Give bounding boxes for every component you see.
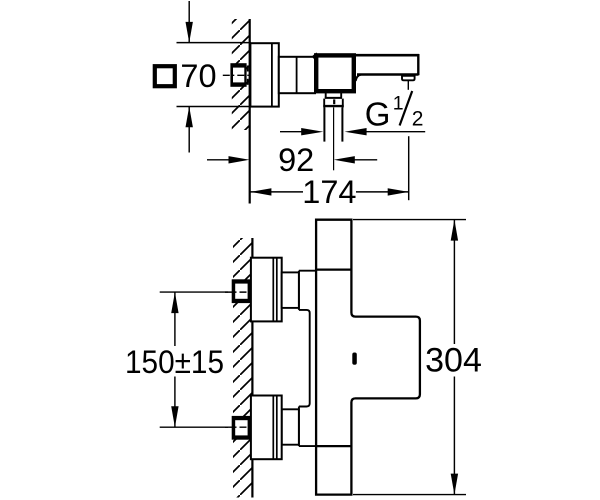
lower flange bottom edge [299, 445, 316, 447]
spout end edge [417, 54, 419, 75]
upper escutcheon [251, 258, 282, 322]
adapter below block [325, 92, 342, 99]
handle square on wall (end view) [230, 63, 247, 87]
wall line (bottom view) [251, 238, 253, 498]
G 1/2 leader left arrow [280, 128, 323, 135]
neck seam [296, 57, 298, 93]
bracket channel between connections [299, 310, 310, 407]
lower cylinder [282, 409, 299, 444]
square symbol for 70 [155, 66, 175, 86]
body top cap seam [316, 269, 351, 271]
304 extension line top [353, 219, 466, 221]
neck cylinder (top view) [279, 57, 315, 93]
spout top edge [352, 54, 419, 57]
svg-text:70: 70 [180, 58, 216, 94]
lower escutcheon seams [272, 396, 274, 460]
150 dimension extension line lower [160, 426, 228, 428]
pipe centre line [333, 107, 335, 170]
upper cylinder [282, 272, 299, 308]
dimension 92: left arrow at wall [207, 156, 250, 163]
lower escutcheon [251, 396, 282, 460]
dimension 70: extension line top [177, 42, 252, 44]
svg-text:174: 174 [302, 174, 356, 210]
svg-text:1: 1 [393, 92, 404, 114]
thermostat block body [316, 55, 354, 91]
mixer body (front view) [316, 220, 420, 495]
G 1/2 leader right arrow with tail [345, 128, 426, 135]
union nut below block [323, 99, 343, 108]
150 dimension line with arrows [171, 292, 178, 427]
svg-text:150±15: 150±15 [125, 344, 224, 380]
extension line at spout end [408, 136, 410, 200]
wall hatching (bottom view) [233, 238, 252, 498]
connection pipe (G 1/2) [324, 107, 342, 141]
upper flange top edge [299, 270, 316, 272]
upper S-union square [232, 279, 251, 303]
svg-text:92: 92 [278, 142, 314, 178]
svg-text:304: 304 [425, 342, 482, 380]
svg-text:2: 2 [412, 108, 424, 131]
aerator drip line [407, 81, 409, 90]
upper union centre line [225, 291, 253, 293]
dimension 92: right arrow at pipe centre [334, 156, 377, 163]
dimension 70: upper dim line with down arrow [186, 1, 193, 43]
dimension 174: line with outward arrows [250, 188, 408, 195]
block top-left chamfer [313, 54, 318, 58]
upper escutcheon seams [272, 258, 274, 322]
304 extension line bottom [353, 494, 466, 496]
escutcheon (top view) [250, 43, 278, 106]
spout under-curve to block [356, 75, 361, 81]
label G 1/2 [365, 91, 424, 133]
small logo blob on body [352, 353, 357, 365]
lower S-union square [232, 416, 251, 440]
escutcheon seam [271, 43, 273, 106]
dimension 70: extension line bottom [177, 106, 250, 108]
lower union centre line [225, 426, 253, 428]
wall line (top view) [249, 19, 251, 204]
svg-text:G: G [365, 96, 391, 133]
150 dimension extension line upper [160, 291, 228, 293]
304 dimension line with arrows [451, 220, 458, 495]
aerator [402, 76, 415, 81]
dimension 70: lower dim line with up arrow [186, 107, 193, 153]
body bottom cap seam [316, 445, 351, 447]
spout bottom edge [357, 73, 419, 75]
centre line of handle [223, 74, 253, 76]
wall hatching (top view) [232, 19, 250, 130]
